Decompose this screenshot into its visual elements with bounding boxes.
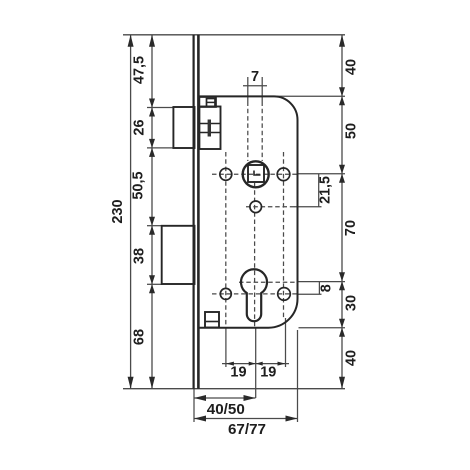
faceplate left edge <box>193 35 195 389</box>
bowtie at y=281.3 <box>339 272 345 290</box>
screw hole bottom-right <box>278 288 291 301</box>
ext handle row <box>297 173 346 175</box>
svg-text:21,5: 21,5 <box>318 176 334 204</box>
spindle square hole <box>248 165 264 182</box>
dashed v spindle right x=262.2 <box>261 102 263 162</box>
svg-text:19: 19 <box>230 365 246 381</box>
lock body outline <box>199 96 297 327</box>
latch guide box inside body <box>199 107 220 150</box>
svg-text:26: 26 <box>132 119 148 135</box>
dim 7 at top <box>243 77 267 102</box>
dashed centerlines <box>212 102 297 328</box>
svg-text:8: 8 <box>319 284 335 292</box>
arrows 19/19 <box>226 362 234 366</box>
bowtie at y=107.5 <box>149 99 155 117</box>
screw hole top-right <box>277 168 290 181</box>
small hole below spindle <box>250 201 262 213</box>
dashed v center axis x=254.6 <box>254 183 256 328</box>
arrow 230 top <box>128 35 134 47</box>
top extension line (datum y=34.8) <box>123 34 345 36</box>
dashed h handle row y=174.3 <box>212 173 297 175</box>
arrow right chain top <box>339 35 345 47</box>
dim 40/50 <box>194 389 256 422</box>
screw hole top-left <box>220 168 232 180</box>
svg-text:68: 68 <box>132 329 148 345</box>
ext body top <box>277 95 345 97</box>
svg-text:40: 40 <box>344 59 360 75</box>
bottom extension line (datum y=388.7) <box>123 388 345 390</box>
svg-text:30: 30 <box>344 295 360 311</box>
bowtie at y=284.3 <box>149 275 155 293</box>
dashed v spindle left x=247.8 <box>247 102 249 162</box>
bowtie at y=96.3 <box>339 87 345 105</box>
left chain dimension line <box>151 35 153 389</box>
dashed v left holes column x=225.8 <box>225 152 227 328</box>
svg-text:70: 70 <box>343 220 359 236</box>
euro cylinder hole <box>241 269 267 321</box>
svg-text:7: 7 <box>251 69 259 85</box>
bowtie at y=147.9 <box>149 139 155 157</box>
dim 8 bracket <box>297 282 322 295</box>
faceplate right edge / body left edge <box>197 35 200 389</box>
spindle follower circle <box>243 161 269 187</box>
svg-text:38: 38 <box>132 248 148 264</box>
svg-text:230: 230 <box>110 199 126 223</box>
dashed v right holes column x=283.5 <box>283 152 285 318</box>
extension lines left side <box>147 108 174 285</box>
arrow chain top <box>149 35 155 47</box>
latch bolt <box>173 107 194 148</box>
deadbolt <box>162 226 195 284</box>
dashed h small hole y=206.8 <box>246 206 297 208</box>
dim 19/19 <box>222 318 289 398</box>
arrow 230 bottom <box>128 377 134 389</box>
svg-text:67/77: 67/77 <box>228 421 266 438</box>
svg-text:50,5: 50,5 <box>131 171 147 199</box>
top detail box <box>199 97 216 107</box>
ext cylinder center <box>297 281 346 283</box>
dim 67/77 <box>194 330 298 422</box>
bottom detail box <box>205 312 219 328</box>
screw hole bottom-left <box>220 288 231 299</box>
svg-text:50: 50 <box>344 123 360 139</box>
ext body bottom <box>299 327 346 329</box>
bowtie at y=225.7 <box>149 217 155 235</box>
svg-text:40/50: 40/50 <box>207 401 245 418</box>
bowtie at y=327.7 <box>339 319 345 337</box>
arrow chain bottom <box>149 377 155 389</box>
ext latch top <box>147 107 174 109</box>
latch spring bar <box>208 120 211 137</box>
svg-text:47,5: 47,5 <box>132 56 148 84</box>
dashed h cylinder center y=282.3 <box>239 281 297 283</box>
ext latch bottom <box>147 147 174 149</box>
svg-text:19: 19 <box>260 365 276 381</box>
right chain dimension line <box>341 35 343 389</box>
dimension line 230 (left outer) <box>130 35 132 389</box>
arrow right chain bottom <box>339 377 345 389</box>
ext deadbolt top <box>147 225 163 227</box>
dashed h bottom holes y=293.9 <box>212 293 297 295</box>
extension lines right side <box>277 96 345 327</box>
spindle inner mark <box>254 171 261 176</box>
svg-text:40: 40 <box>344 350 360 366</box>
dim 21,5 bracket <box>294 174 322 207</box>
ext deadbolt bottom <box>147 283 163 285</box>
bowtie at y=173.8 <box>339 165 345 183</box>
